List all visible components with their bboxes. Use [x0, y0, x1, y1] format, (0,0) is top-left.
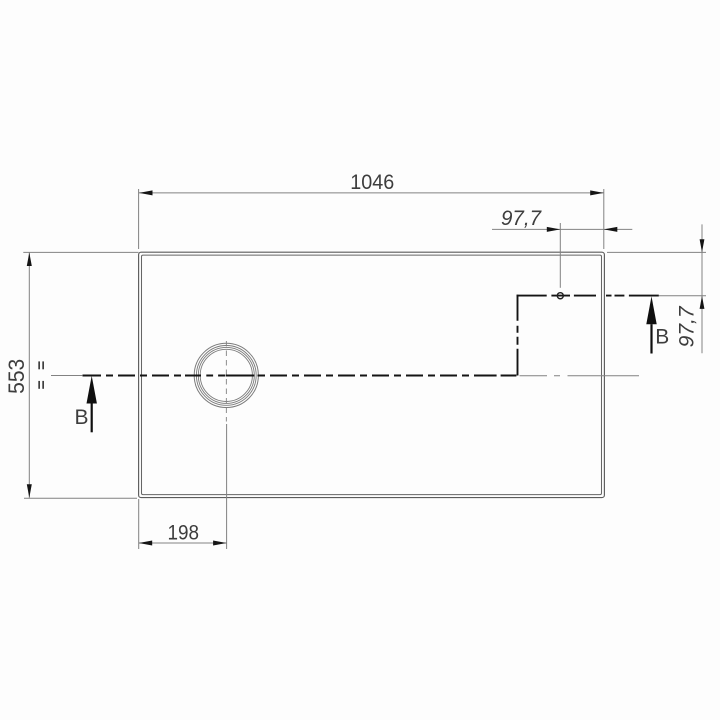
svg-text:B: B	[75, 406, 89, 429]
symmetry mark lower =	[38, 381, 44, 389]
arrowhead 1046 right	[590, 190, 604, 195]
svg-text:97,7: 97,7	[501, 207, 542, 230]
extension line bottom-left corner	[24, 497, 137, 499]
worktop inner edge line	[142, 255, 602, 495]
thin hole-point centerline extension right	[659, 295, 706, 297]
hole point marker	[557, 293, 563, 299]
extension line top-right corner horizontal	[607, 251, 706, 253]
arrowhead 97,7 right bottom (points up)	[700, 296, 705, 309]
arrowhead 1046 left	[139, 190, 153, 195]
symmetry mark upper =	[38, 361, 44, 369]
svg-text:198: 198	[168, 521, 200, 544]
hole circle ring 4	[200, 349, 252, 401]
thin centerline left of section line	[51, 375, 82, 377]
extension line top-left corner	[23, 251, 138, 253]
arrowhead 198 left	[139, 541, 153, 546]
worktop outer outline	[139, 252, 605, 497]
dimension line 198	[139, 542, 227, 544]
section line B-B horizontal main	[83, 375, 517, 377]
dimension line 553 left	[28, 253, 30, 498]
vertical centerline of hole	[225, 341, 227, 422]
extension line right edge (1046 / 97,7)	[603, 189, 605, 249]
section arrow B left	[87, 376, 97, 433]
svg-text:553: 553	[4, 359, 29, 394]
arrowhead 97,7 at edge (points left)	[604, 227, 618, 232]
svg-text:1046: 1046	[350, 171, 394, 194]
dimension line 97,7 top	[492, 228, 632, 230]
hole circle ring 3	[198, 347, 254, 403]
arrowhead 198 right	[213, 541, 227, 546]
dimension line 97,7 right vertical	[701, 224, 703, 353]
svg-text:B: B	[655, 326, 669, 349]
arrowhead 97,7 right top (points down)	[700, 239, 705, 252]
arrowhead 553 bottom	[27, 484, 32, 498]
section line B-B vertical step	[517, 295, 519, 376]
arrowhead 553 top	[27, 253, 32, 267]
arrowhead 97,7 at hole (points right)	[547, 227, 561, 232]
thin centerline right of section step	[520, 375, 640, 377]
section arrow B right	[646, 296, 656, 353]
section line B-B upper horizontal	[517, 295, 659, 297]
svg-text:97,7: 97,7	[676, 305, 699, 347]
extension line 198 left	[138, 499, 140, 549]
hole circle ring 1	[194, 343, 258, 407]
extension line hole point vertical	[559, 223, 561, 288]
extension line 198 right (hole center)	[226, 424, 228, 549]
extension line left edge (1046)	[138, 189, 140, 249]
dimension line 1046	[139, 192, 604, 194]
hole circle ring 2	[196, 346, 256, 406]
